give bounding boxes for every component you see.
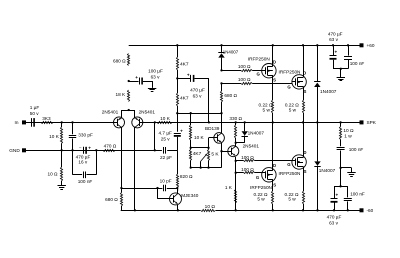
svg-text:50 v: 50 v [30, 111, 40, 116]
svg-text:100 Ω: 100 Ω [238, 64, 251, 69]
svg-text:5 w: 5 w [288, 197, 296, 202]
svg-text:+: + [334, 49, 337, 54]
svg-text:S: S [304, 169, 307, 174]
svg-text:+60: +60 [367, 43, 375, 48]
svg-text:S: S [273, 183, 276, 188]
svg-text:IRFP250N: IRFP250N [248, 56, 270, 61]
svg-text:1 µF: 1 µF [30, 105, 40, 110]
svg-text:+: + [88, 145, 91, 150]
svg-text:100 nF: 100 nF [350, 61, 365, 66]
svg-text:100 Ω: 100 Ω [241, 155, 254, 160]
svg-text:10 Ω: 10 Ω [343, 128, 354, 134]
svg-text:680 Ω: 680 Ω [105, 197, 118, 202]
svg-text:470 µF: 470 µF [327, 215, 342, 220]
svg-text:SPK: SPK [367, 120, 377, 125]
svg-text:18 K: 18 K [115, 92, 126, 97]
svg-text:IRFP250N: IRFP250N [279, 171, 301, 176]
svg-text:100 Ω: 100 Ω [238, 77, 251, 82]
svg-text:63 v: 63 v [151, 75, 161, 80]
svg-text:BD139: BD139 [205, 126, 220, 131]
svg-text:1N4007: 1N4007 [248, 130, 265, 135]
svg-text:1 w: 1 w [344, 133, 352, 139]
svg-text:820 Ω: 820 Ω [180, 174, 193, 179]
svg-text:680 Ω: 680 Ω [113, 59, 126, 64]
svg-text:10 K: 10 K [49, 134, 60, 139]
svg-text:1N4007: 1N4007 [223, 50, 239, 55]
svg-text:2N5401: 2N5401 [139, 110, 156, 115]
svg-text:10 K: 10 K [160, 116, 171, 121]
svg-text:2N5401: 2N5401 [102, 110, 119, 115]
svg-text:-60: -60 [367, 208, 374, 213]
svg-text:100 nF: 100 nF [350, 192, 365, 197]
svg-text:0.22 Ω: 0.22 Ω [285, 102, 299, 107]
svg-text:330 pF: 330 pF [78, 132, 93, 137]
svg-text:+: + [135, 75, 138, 80]
svg-text:470 Ω: 470 Ω [104, 143, 117, 148]
svg-text:1 K: 1 K [225, 185, 233, 190]
svg-text:IRFP250N: IRFP250N [279, 70, 301, 75]
svg-text:5 w: 5 w [289, 108, 297, 113]
svg-text:4.7 µF: 4.7 µF [159, 130, 173, 135]
svg-text:4K7: 4K7 [193, 151, 202, 157]
svg-text:GND: GND [9, 148, 20, 153]
svg-text:1N4007: 1N4007 [320, 89, 337, 94]
svg-text:2N5401: 2N5401 [243, 144, 260, 149]
svg-text:5 w: 5 w [257, 197, 265, 202]
svg-text:D: D [273, 163, 276, 168]
svg-text:1N4007: 1N4007 [319, 168, 336, 173]
svg-text:10 pF: 10 pF [160, 178, 172, 183]
svg-text:10 Ω: 10 Ω [47, 172, 58, 177]
svg-text:3K3: 3K3 [42, 116, 51, 121]
svg-text:5 K: 5 K [211, 151, 219, 157]
svg-text:−: − [79, 145, 82, 150]
svg-text:100 Ω: 100 Ω [241, 167, 254, 172]
svg-text:In: In [15, 120, 19, 125]
svg-text:5 w: 5 w [263, 108, 271, 113]
svg-text:4K7: 4K7 [180, 61, 189, 67]
svg-text:10 Ω: 10 Ω [205, 204, 216, 210]
svg-text:470 µF: 470 µF [190, 88, 205, 93]
svg-text:22 pF: 22 pF [160, 155, 172, 160]
svg-text:10 K: 10 K [194, 135, 205, 140]
svg-text:+: + [180, 129, 183, 134]
svg-text:100 µF: 100 µF [148, 69, 163, 74]
svg-text:IRFP250N: IRFP250N [250, 185, 272, 190]
svg-text:D: D [273, 60, 276, 65]
svg-text:63 v: 63 v [329, 221, 339, 226]
svg-text:0.22 Ω: 0.22 Ω [259, 102, 273, 107]
svg-text:25 v: 25 v [161, 136, 171, 141]
svg-text:16 v: 16 v [78, 160, 88, 165]
svg-text:100 nF: 100 nF [349, 147, 364, 152]
svg-text:470 µF: 470 µF [328, 31, 343, 36]
svg-text:+: + [335, 193, 338, 198]
svg-text:4K7: 4K7 [180, 95, 189, 101]
svg-text:63 v: 63 v [329, 37, 339, 42]
svg-text:S: S [273, 78, 276, 83]
svg-text:63 v: 63 v [193, 93, 203, 98]
svg-text:330 Ω: 330 Ω [229, 116, 242, 121]
svg-text:+: + [187, 72, 190, 77]
svg-text:680 Ω: 680 Ω [224, 93, 237, 98]
svg-text:MJE340: MJE340 [181, 193, 199, 198]
svg-text:100 nF: 100 nF [78, 179, 93, 184]
